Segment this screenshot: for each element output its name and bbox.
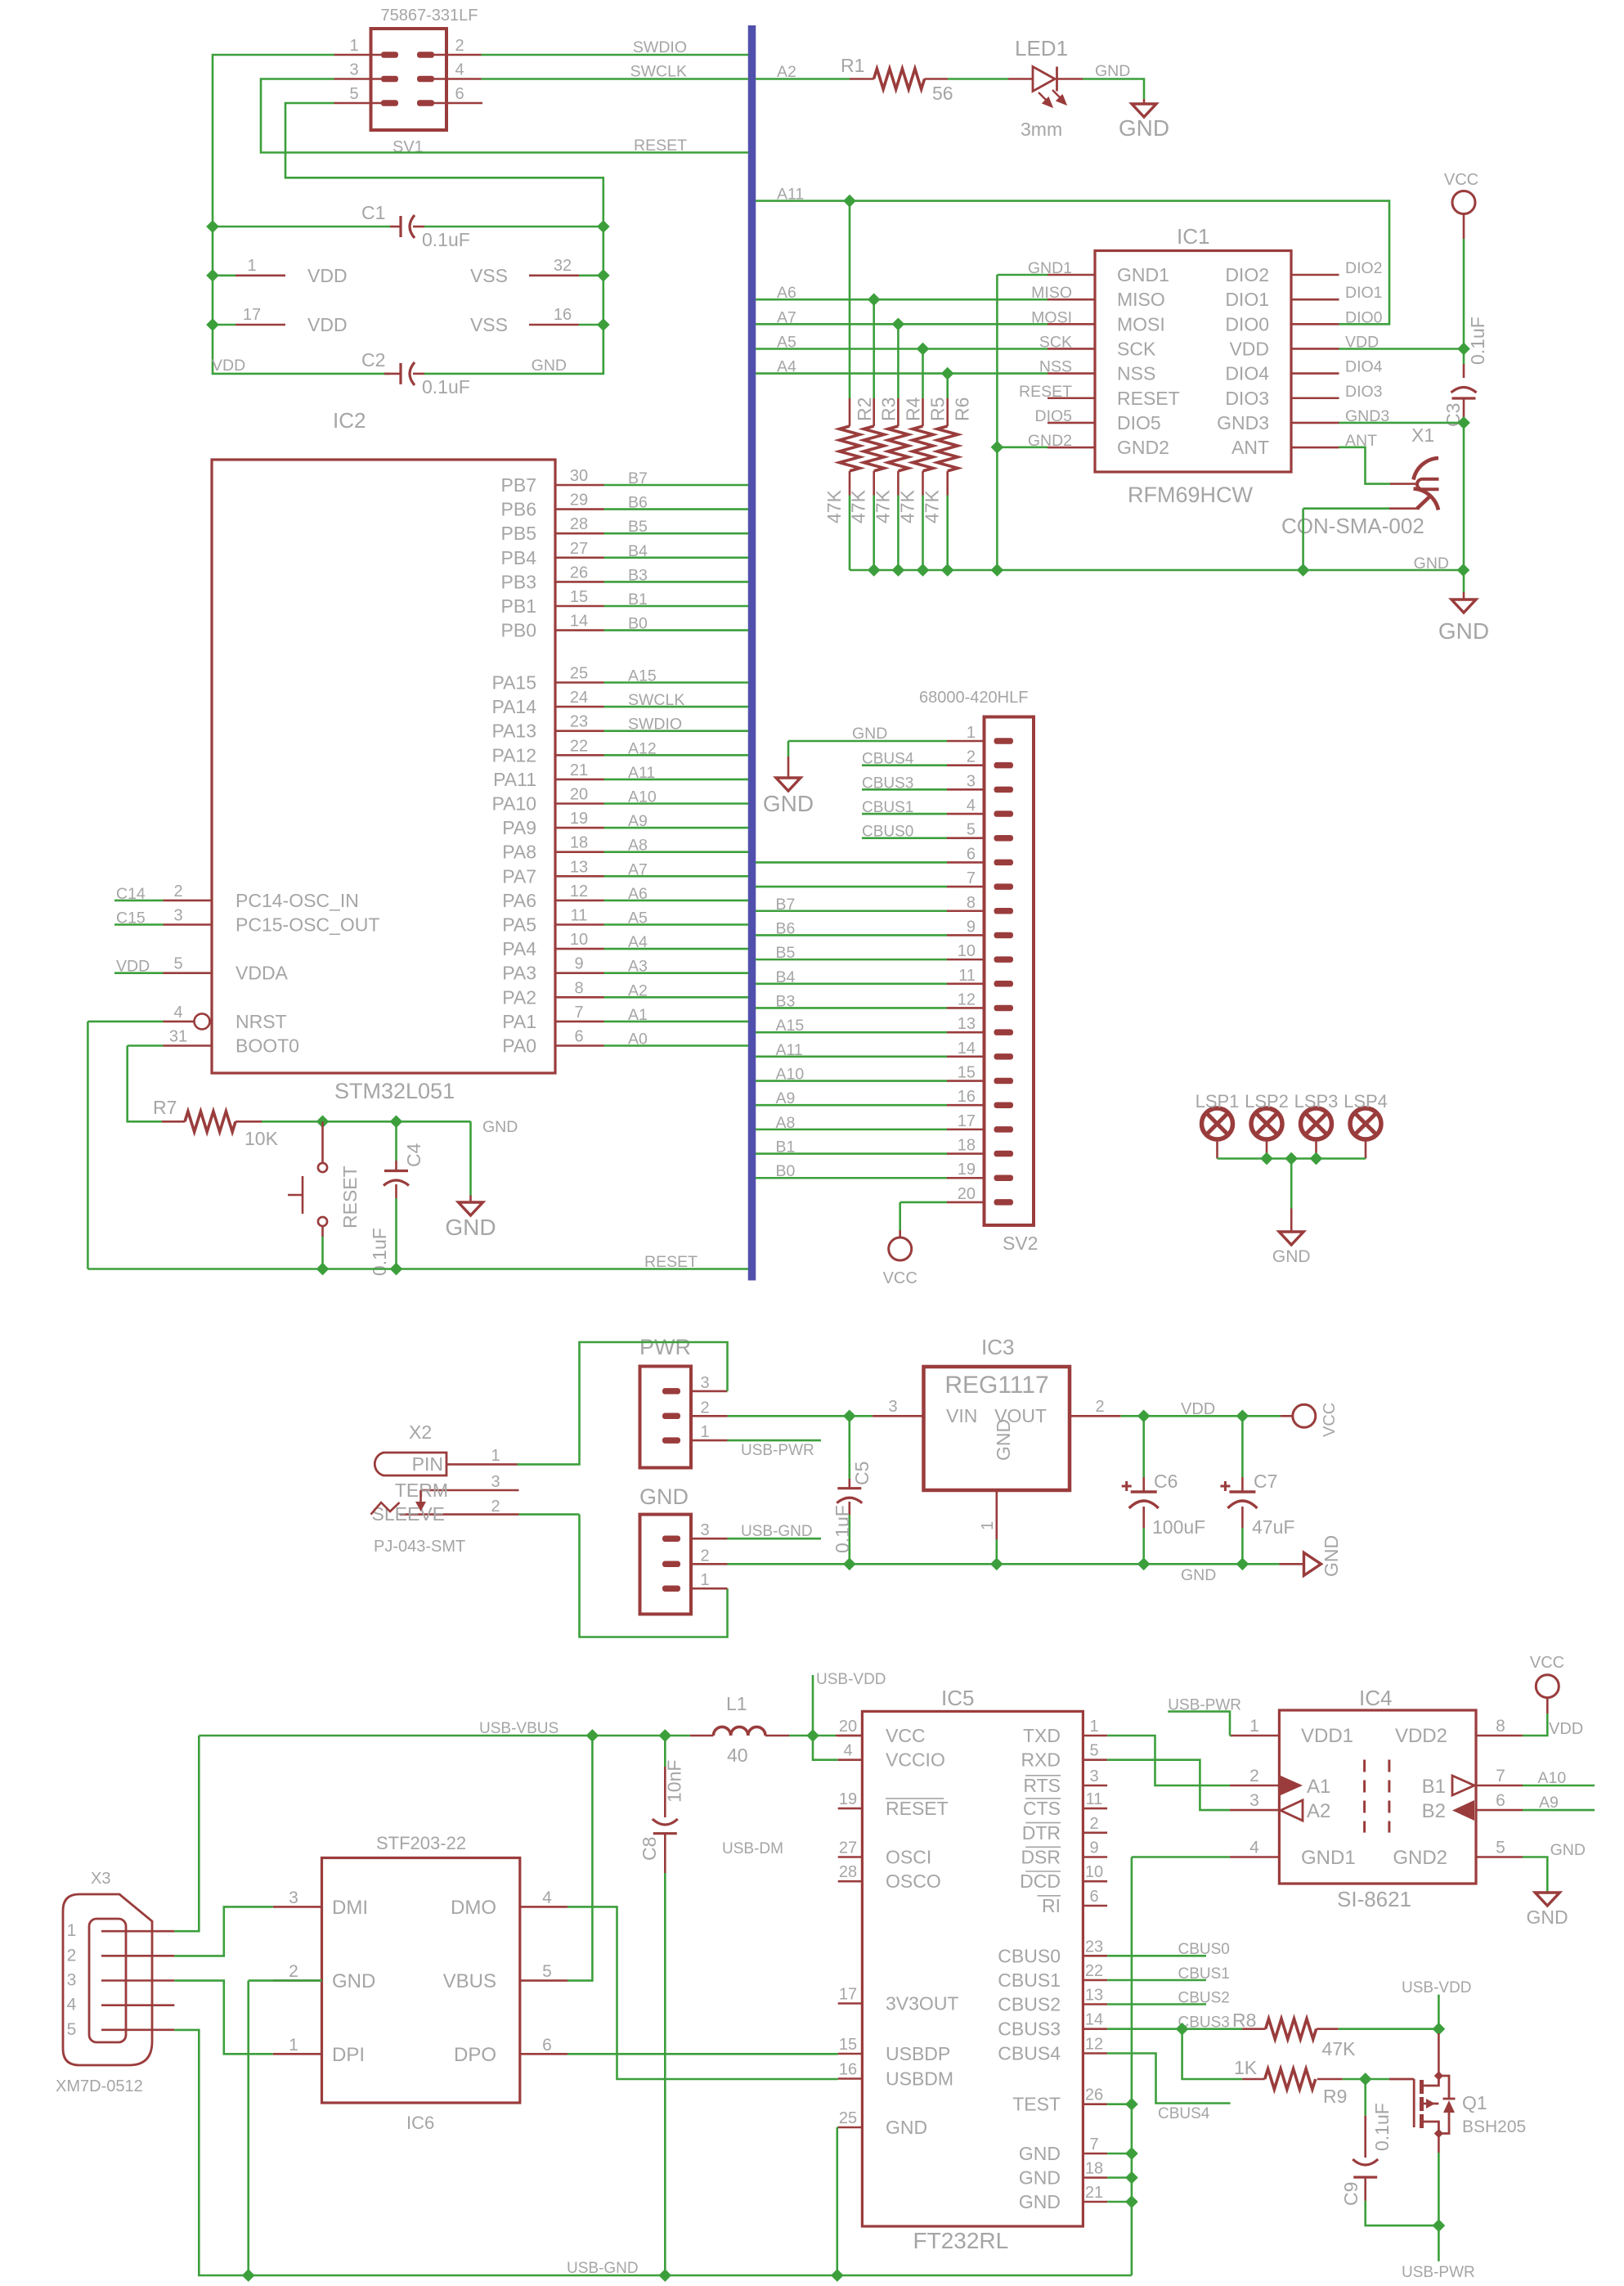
wire GND from SV1 pin5 down right column: [285, 103, 603, 227]
svg-text:SWCLK: SWCLK: [628, 691, 684, 709]
GND lead: [1546, 1892, 1549, 1893]
svg-text:8: 8: [967, 894, 976, 912]
junction VDD/C3: [1458, 344, 1469, 355]
svg-text:GND: GND: [1019, 2143, 1061, 2164]
wire gnd to C5: [728, 1563, 850, 1565]
svg-text:15: 15: [570, 588, 588, 606]
svg-text:RFM69HCW: RFM69HCW: [1128, 483, 1254, 507]
svg-text:VCC: VCC: [886, 1725, 926, 1746]
wire GND3 down to rail: [1463, 423, 1465, 570]
svg-text:DIO1: DIO1: [1225, 289, 1269, 310]
svg-text:SLEEVE: SLEEVE: [372, 1503, 446, 1525]
pin 18 PA8 of IC2: [555, 851, 604, 853]
svg-text:USB-PWR: USB-PWR: [1168, 1697, 1241, 1714]
junction MISO/R3: [868, 294, 880, 305]
svg-text:40: 40: [727, 1745, 748, 1766]
pin VDD 1 of IC2: [236, 274, 285, 276]
svg-text:RXD: RXD: [1021, 1749, 1061, 1771]
svg-text:12: 12: [958, 990, 976, 1008]
svg-text:20: 20: [570, 786, 588, 804]
R5 top lead: [922, 398, 924, 426]
wire down to GND symbol: [469, 1121, 472, 1195]
svg-text:OSCO: OSCO: [886, 1871, 941, 1892]
svg-text:27: 27: [570, 540, 588, 558]
pin DIO2 of IC1: [1291, 274, 1339, 276]
svg-text:15: 15: [839, 2036, 857, 2054]
wire CBUS1 stub: [862, 813, 947, 815]
svg-text:GND: GND: [1526, 1906, 1568, 1928]
GND lead: [1290, 1209, 1293, 1233]
svg-text:RESET: RESET: [1019, 383, 1072, 401]
svg-text:21: 21: [1085, 2184, 1103, 2202]
junction gnd rail: [868, 564, 880, 576]
pin VSS 16 of IC2: [529, 324, 579, 326]
wire C7 to gnd rail: [1241, 1528, 1244, 1564]
svg-text:2: 2: [967, 748, 976, 766]
C7 top lead: [1241, 1477, 1244, 1492]
pin VDD 17 of IC2: [236, 324, 285, 326]
wire GND7: [1107, 2153, 1132, 2155]
wire C8 to USB-GND rail: [664, 1873, 666, 2275]
svg-text:24: 24: [570, 689, 588, 707]
connector X1 CON-SMA-002: [1414, 458, 1439, 480]
wire A10 stub: [1523, 1785, 1595, 1787]
svg-text:RESET: RESET: [886, 1798, 949, 1819]
svg-text:15: 15: [958, 1064, 976, 1082]
svg-text:3: 3: [700, 1521, 709, 1539]
svg-text:CTS: CTS: [1023, 1798, 1061, 1819]
svg-text:PB4: PB4: [501, 547, 537, 568]
svg-text:SV2: SV2: [1003, 1233, 1038, 1254]
pin 10 DCD of IC5: [1083, 1880, 1107, 1883]
pin 5 of X3: [101, 2029, 174, 2032]
svg-text:10: 10: [570, 931, 588, 949]
svg-text:R2: R2: [854, 397, 875, 421]
pin 3 of PWR: [691, 1390, 728, 1393]
wire R3 to gnd rail: [873, 496, 875, 571]
VCC lead: [1463, 214, 1465, 240]
svg-text:1K: 1K: [1234, 2057, 1258, 2078]
svg-text:A9: A9: [776, 1089, 796, 1107]
wire B4 bus to SV2 pin 11: [756, 983, 947, 986]
svg-text:1: 1: [67, 1921, 77, 1940]
resistor R4: [888, 426, 908, 471]
svg-text:USB-DM: USB-DM: [722, 1840, 783, 1857]
svg-text:GND2: GND2: [1117, 437, 1169, 458]
svg-text:VSS: VSS: [470, 314, 508, 335]
svg-text:VDD: VDD: [1549, 1720, 1583, 1738]
supply VCC: [1536, 1675, 1559, 1698]
pin 1 of GND conn: [691, 1588, 728, 1590]
wire to C5: [849, 1416, 851, 1479]
svg-text:3: 3: [67, 1971, 77, 1990]
svg-text:0.1uF: 0.1uF: [422, 376, 470, 397]
svg-text:VCC: VCC: [1444, 171, 1478, 189]
wire USB-VDD stub: [812, 1675, 814, 1736]
svg-text:GND: GND: [1550, 1841, 1586, 1859]
wire CBUS3 to R9: [1182, 2029, 1243, 2079]
pin VDD of IC1: [1291, 348, 1339, 350]
svg-text:9: 9: [1089, 1839, 1098, 1857]
svg-text:30: 30: [570, 467, 588, 485]
SV1 pin bars: [381, 52, 398, 58]
svg-text:4: 4: [455, 61, 464, 79]
svg-text:10: 10: [958, 942, 976, 960]
svg-text:1: 1: [1089, 1718, 1098, 1736]
svg-text:DCD: DCD: [1020, 1871, 1061, 1892]
pin 2 of GND conn: [691, 1563, 728, 1565]
C4 top lead: [395, 1161, 397, 1171]
wire down to VCC: [899, 1202, 901, 1230]
svg-text:USB-GND: USB-GND: [741, 1523, 813, 1540]
svg-text:B5: B5: [628, 518, 648, 536]
X1 center pin lead: [1390, 483, 1417, 485]
svg-text:0.1uF: 0.1uF: [422, 229, 470, 250]
wire PWR pin2 to VIN: [728, 1415, 873, 1417]
pin 20 VCC of IC5: [836, 1735, 862, 1737]
svg-text:VDD: VDD: [307, 265, 348, 286]
junction SCK/R5: [917, 344, 929, 355]
C8 bottom lead: [664, 1834, 666, 1873]
wire A8 bus to SV2 pin 17: [756, 1129, 947, 1131]
svg-text:DIO2: DIO2: [1345, 259, 1383, 277]
pin 1 of X3: [101, 1930, 174, 1933]
svg-text:PA6: PA6: [502, 890, 536, 911]
pin 6 of SV2: [947, 861, 985, 864]
svg-text:C9: C9: [1340, 2182, 1362, 2206]
svg-text:USB-VBUS: USB-VBUS: [479, 1720, 559, 1737]
svg-text:19: 19: [839, 1790, 857, 1808]
junction gnd rail: [917, 564, 929, 576]
resistor R2: [840, 426, 860, 471]
svg-text:CBUS1: CBUS1: [862, 799, 913, 816]
pin 27 OSCI of IC5: [838, 1856, 863, 1858]
wire A11 from bus to DIO0: [756, 201, 1389, 325]
ground GND: [1132, 104, 1156, 117]
wire R1 to LED1: [948, 78, 1008, 80]
wire CBUS1 stub: [1107, 1979, 1206, 1982]
R1 left lead: [850, 78, 874, 80]
supply VCC: [1452, 191, 1475, 214]
R1 right lead: [925, 78, 949, 80]
pin 3 of SV1: [334, 78, 382, 80]
svg-text:17: 17: [958, 1112, 976, 1130]
svg-text:A4: A4: [628, 933, 648, 951]
C5 bottom lead: [849, 1502, 851, 1515]
svg-text:R7: R7: [153, 1097, 177, 1118]
svg-text:13: 13: [958, 1015, 976, 1033]
svg-text:B7: B7: [776, 896, 796, 914]
svg-text:2: 2: [67, 1946, 77, 1965]
svg-text:GND: GND: [1119, 115, 1169, 141]
svg-text:B1: B1: [628, 591, 648, 609]
svg-text:3: 3: [700, 1374, 709, 1392]
wire GND1: [1132, 1856, 1230, 1858]
test point LSP3: [1301, 1108, 1332, 1139]
junction gnd rail: [992, 564, 1003, 576]
pin 25 GND of IC5: [838, 2127, 863, 2129]
pin 4 GND1 of IC4: [1230, 1856, 1280, 1858]
svg-text:CBUS2: CBUS2: [1178, 1990, 1230, 2007]
pin 18 of SV2: [947, 1152, 985, 1155]
wire BOOT0 to R7: [128, 1046, 162, 1122]
junction GND25 rail: [832, 2270, 843, 2281]
pin 4 of SV1: [434, 78, 482, 80]
C9 top lead: [1364, 2116, 1366, 2158]
svg-text:C15: C15: [116, 909, 146, 927]
junction LSP3: [1311, 1153, 1322, 1165]
svg-text:14: 14: [570, 613, 588, 631]
pin 14 of SV2: [947, 1056, 985, 1058]
pin 4 NRST of IC2 (inverted): [164, 1021, 195, 1023]
svg-text:2: 2: [1249, 1767, 1259, 1785]
pin DIO5 of IC1: [1048, 422, 1095, 424]
pin 3 of SV2: [947, 788, 985, 791]
resistor R9: [1265, 2069, 1316, 2090]
svg-text:PA12: PA12: [491, 744, 536, 766]
pin 18 GND of IC5: [1083, 2176, 1107, 2179]
svg-text:23: 23: [1085, 1938, 1103, 1956]
svg-text:17: 17: [839, 1986, 857, 2004]
junction C5 top: [844, 1411, 855, 1422]
pin 19 PA9 of IC2: [555, 827, 604, 829]
wire SWCLK to bus: [482, 78, 749, 80]
svg-text:A10: A10: [776, 1066, 805, 1084]
connector SV2 68000-420HLF: [985, 717, 1034, 1226]
wire to C9: [1364, 2079, 1366, 2116]
svg-text:SI-8621: SI-8621: [1337, 1887, 1411, 1911]
IC IC1 RFM69HCW: [1095, 251, 1291, 473]
C9 bottom lead: [1364, 2177, 1366, 2201]
pin 11 PA5 of IC2: [555, 923, 604, 926]
pin 25 PA15 of IC2: [555, 681, 604, 684]
connector X2 PJ-043-SMT barrel jack: [375, 1453, 446, 1475]
Q1 source lead: [1438, 2134, 1440, 2154]
wire to R3: [873, 299, 875, 398]
svg-text:C5: C5: [851, 1462, 873, 1485]
pin 2 of SV1: [434, 54, 482, 56]
svg-text:DIO1: DIO1: [1345, 284, 1383, 302]
wire USB-PWR stub: [1438, 2225, 1440, 2261]
svg-text:VIN: VIN: [946, 1405, 977, 1426]
wire USB-VDD stub: [1438, 1995, 1440, 2029]
svg-text:VBUS: VBUS: [443, 1970, 496, 1992]
svg-text:GND: GND: [1019, 2191, 1061, 2212]
LSP2 lead: [1266, 1140, 1268, 1159]
svg-text:USB-VDD: USB-VDD: [1402, 1979, 1472, 1996]
svg-text:A3: A3: [628, 958, 648, 976]
pin 21 PA11 of IC2: [555, 779, 604, 781]
svg-text:CBUS2: CBUS2: [998, 1994, 1061, 2015]
svg-text:GND: GND: [1321, 1535, 1342, 1577]
svg-text:TXD: TXD: [1023, 1725, 1061, 1746]
svg-text:3: 3: [1249, 1791, 1259, 1810]
svg-text:19: 19: [958, 1161, 976, 1179]
svg-text:LSP2: LSP2: [1245, 1091, 1289, 1112]
wire B7 to bus: [604, 484, 749, 487]
resistor R7: [185, 1112, 236, 1132]
wire to C8: [664, 1736, 666, 1767]
pin 23 CBUS0 of IC5: [1083, 1955, 1107, 1957]
wire A9 bus to SV2 pin 16: [756, 1104, 947, 1107]
pin 16 of SV2: [947, 1104, 985, 1107]
C1 left lead: [390, 226, 401, 228]
pin SCK of IC1: [1048, 348, 1095, 350]
wire R6 to gnd rail: [946, 496, 949, 571]
X2 switch contact: [419, 1490, 422, 1503]
LED LED1: [1008, 78, 1033, 80]
pin GND2 of IC1: [1048, 447, 1095, 449]
wire C15 stub: [114, 923, 164, 926]
svg-text:47K: 47K: [1322, 2038, 1357, 2059]
connector X3 XM7D-0512 usb jack: [63, 1894, 152, 2065]
svg-text:RESET: RESET: [644, 1253, 698, 1271]
wire Q1 source to USB-PWR: [1438, 2153, 1440, 2225]
junction usb-gnd rail: [243, 2270, 254, 2281]
svg-text:B3: B3: [628, 566, 648, 584]
svg-text:A10: A10: [1538, 1769, 1567, 1787]
wire A4 to bus: [604, 948, 749, 950]
pin 2 GND of IC6: [273, 1979, 322, 1982]
pin 1 VDD1 of IC4: [1230, 1735, 1280, 1737]
svg-text:B0: B0: [776, 1162, 796, 1180]
pin 26 PB3 of IC2: [555, 581, 604, 583]
wire CBUS2 stub: [1107, 2003, 1206, 2005]
C2 left lead: [384, 373, 401, 375]
junction reset rail: [317, 1264, 329, 1275]
svg-text:26: 26: [570, 564, 588, 582]
svg-text:DIO2: DIO2: [1225, 264, 1269, 285]
svg-text:B0: B0: [628, 615, 648, 633]
connector SV1 75867-331LF: [371, 29, 447, 130]
wire from VSS16: [579, 324, 603, 326]
pin 3 A2 of IC4: [1230, 1809, 1280, 1812]
wire X3 pin1 to USB-VBUS: [174, 1736, 199, 1931]
svg-text:12: 12: [570, 883, 588, 900]
svg-text:3: 3: [888, 1398, 897, 1416]
pin 16 USBDM of IC5: [838, 2077, 863, 2080]
svg-text:5: 5: [1496, 1839, 1505, 1857]
capacitor C9: [1353, 2159, 1378, 2165]
pin 3 DMI of IC6: [273, 1906, 322, 1908]
wire CBUS3 to R8: [1107, 2028, 1242, 2030]
svg-text:OSCI: OSCI: [886, 1847, 931, 1868]
pin 2 DTR of IC5: [1083, 1832, 1107, 1835]
pin 17 3V3OUT of IC5: [838, 2002, 863, 2005]
svg-text:GND: GND: [445, 1215, 496, 1240]
wire to C7: [1241, 1416, 1244, 1477]
ground GND: [1279, 1232, 1303, 1245]
svg-text:RI: RI: [1042, 1895, 1061, 1916]
svg-text:1: 1: [700, 1571, 709, 1589]
svg-text:4: 4: [542, 1889, 552, 1907]
pin 10 of SV2: [947, 959, 985, 961]
wire B6 bus to SV2 pin 9: [756, 934, 947, 936]
svg-text:47K: 47K: [922, 489, 943, 523]
C8 top lead: [664, 1767, 666, 1817]
pin 27 PB4 of IC2: [555, 556, 604, 559]
svg-text:CBUS1: CBUS1: [998, 1969, 1061, 1991]
svg-text:SCK: SCK: [1117, 338, 1156, 359]
svg-text:56: 56: [932, 83, 953, 104]
wire X1 gnd down to rail: [1302, 509, 1304, 570]
svg-text:25: 25: [839, 2109, 857, 2127]
wire A10 to bus: [604, 802, 749, 805]
svg-text:GND: GND: [1272, 1247, 1311, 1266]
svg-text:7: 7: [1089, 2136, 1098, 2154]
svg-text:1: 1: [247, 257, 256, 275]
junction GND2: [992, 442, 1003, 453]
wire B4 to bus: [604, 556, 749, 559]
wire to GND symbol: [787, 741, 790, 757]
svg-text:B7: B7: [628, 469, 648, 487]
wire B7 bus to SV2 pin 8: [756, 909, 947, 912]
LED1 light arrows: [1039, 90, 1065, 106]
GND pin bars: [662, 1535, 680, 1542]
test point LSP2: [1251, 1108, 1282, 1139]
pin 1 GND of IC3: [996, 1490, 998, 1539]
pin 20 VCC of IC5: [838, 1735, 863, 1737]
IC U IC2 STM32L051: [212, 460, 555, 1073]
svg-text:PB0: PB0: [501, 620, 536, 641]
C1 right lead: [413, 226, 424, 228]
pin 1 DPI of IC6: [273, 2053, 322, 2055]
R7 left lead: [162, 1121, 185, 1123]
junction USB-VDD/Q1: [1433, 2023, 1445, 2035]
wire USB-GND stub: [728, 1538, 822, 1540]
junction VDD rail: [207, 270, 218, 281]
wire RESET rail to bus: [87, 1268, 748, 1270]
wire USB-VBUS rail: [199, 1735, 690, 1737]
capacitor C2: [399, 363, 402, 384]
svg-text:27: 27: [839, 1839, 857, 1857]
pin 5 VBUS of IC6: [520, 1979, 568, 1982]
R4 top lead: [897, 398, 899, 426]
wire B0 bus to SV2 pin 19: [756, 1177, 947, 1179]
svg-text:PA5: PA5: [502, 914, 536, 936]
GND lead: [1143, 99, 1146, 104]
svg-text:68000-420HLF: 68000-420HLF: [919, 689, 1028, 707]
svg-text:3: 3: [289, 1889, 298, 1907]
svg-text:A15: A15: [628, 667, 657, 685]
pin 21 GND of IC5: [1083, 2201, 1107, 2203]
svg-text:A2: A2: [777, 63, 796, 81]
svg-text:A2: A2: [628, 981, 648, 999]
svg-text:5: 5: [349, 85, 358, 103]
svg-text:8: 8: [574, 979, 583, 997]
junction NSS/R6: [942, 368, 953, 380]
junction C4 top: [391, 1116, 402, 1128]
junction MOSI/R4: [893, 319, 904, 330]
svg-text:CBUS3: CBUS3: [998, 2019, 1061, 2040]
resistor R1: [874, 69, 925, 89]
junction GND rail: [598, 319, 609, 330]
pin 4 DMO of IC6: [520, 1906, 568, 1908]
svg-text:GND: GND: [1181, 1566, 1216, 1584]
wire RXD to IC4 A2: [1107, 1760, 1230, 1810]
pin 31 BOOT0 of IC2: [164, 1044, 213, 1047]
R6 top lead: [946, 398, 949, 426]
pin 2 VOUT of IC3: [1070, 1415, 1121, 1417]
svg-text:GND: GND: [332, 1970, 375, 1992]
pin 5 RXD of IC5: [1083, 1758, 1107, 1761]
wire VDD stub: [114, 972, 164, 974]
svg-text:CBUS0: CBUS0: [862, 824, 913, 841]
pin 5 VDDA of IC2: [164, 972, 213, 974]
svg-text:6: 6: [1496, 1791, 1505, 1810]
ground GND: [776, 778, 801, 791]
svg-text:STM32L051: STM32L051: [334, 1079, 455, 1103]
